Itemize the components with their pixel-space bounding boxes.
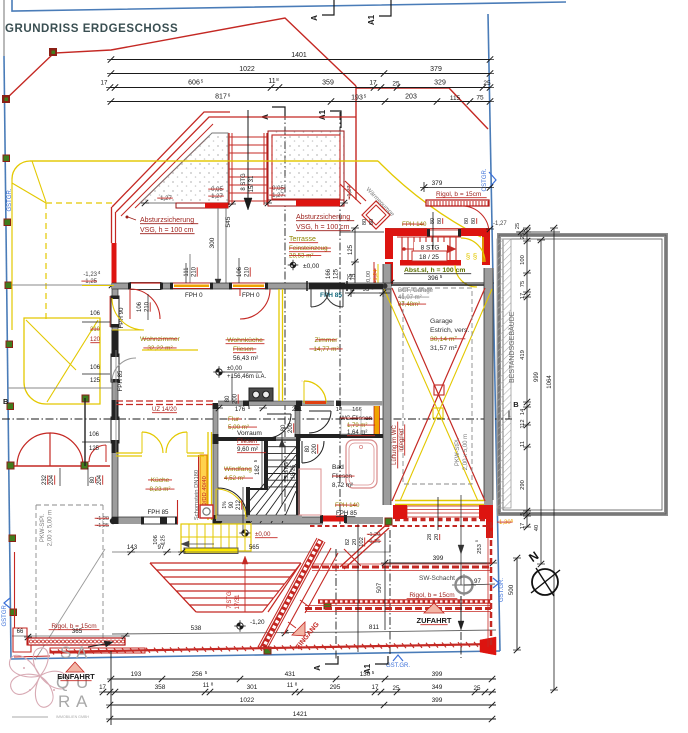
svg-text:204: 204	[97, 474, 103, 485]
svg-text:120: 120	[90, 337, 101, 343]
red east boundary dashes	[490, 522, 493, 647]
svg-text:60: 60	[369, 219, 375, 225]
wall H2 windfang	[216, 437, 276, 441]
interior wall H1 WC part	[338, 401, 383, 406]
terrace east south wall	[268, 200, 344, 206]
svg-text:210: 210	[145, 301, 151, 312]
svg-text:300: 300	[209, 237, 216, 248]
svg-text:IMMOBILIEN GMBH: IMMOBILIEN GMBH	[56, 715, 89, 719]
svg-text:A: A	[76, 643, 88, 662]
dimension line 817 203 115 75	[110, 101, 490, 103]
svg-text:106: 106	[90, 365, 101, 371]
svg-text:20: 20	[434, 534, 440, 540]
svg-text:GRUNDRISS ERDGESCHOSS: GRUNDRISS ERDGESCHOSS	[5, 23, 178, 35]
svg-text:FPH 85: FPH 85	[148, 509, 170, 516]
svg-text:565: 565	[249, 544, 260, 551]
west window FPH90	[111, 296, 119, 327]
garage yellow X marking	[384, 289, 478, 501]
windfang door black swing	[218, 488, 247, 517]
svg-text:1,79 m²: 1,79 m²	[347, 423, 367, 429]
yellow old garage outline	[24, 318, 100, 404]
entry bottom wall	[400, 260, 461, 266]
section line A (dash-dot vertical)	[284, 112, 286, 524]
entry door opening FPH140	[427, 230, 461, 236]
svg-text:VSG, h = 100 cm: VSG, h = 100 cm	[296, 224, 350, 231]
svg-text:28: 28	[427, 534, 433, 540]
svg-text:37,48m²: 37,48m²	[398, 302, 420, 308]
svg-text:-1,20: -1,20	[368, 532, 381, 538]
corner node garage NW	[383, 284, 388, 289]
red band along south boundary	[50, 644, 495, 652]
bottom dim line 3	[110, 704, 496, 706]
svg-text:80: 80	[362, 219, 368, 225]
grey diagonal parking	[35, 549, 105, 660]
svg-text:PKW-StPl.: PKW-StPl.	[455, 438, 461, 467]
svg-text:17/31: 17/31	[235, 594, 241, 610]
svg-text:A: A	[310, 15, 319, 21]
svg-text:210: 210	[90, 327, 101, 333]
svg-text:-1,20: -1,20	[250, 619, 265, 626]
svg-text:Schornstein DN180: Schornstein DN180	[194, 470, 200, 520]
red corner outline southwest	[13, 628, 31, 652]
north door1 red swing	[130, 289, 160, 319]
svg-text:811: 811	[369, 624, 380, 631]
terrace stair flight	[229, 136, 267, 138]
svg-text:Windfang: Windfang	[224, 466, 252, 473]
property boundary south (blue)	[11, 651, 500, 659]
grey line at -123	[12, 284, 112, 286]
svg-text:11: 11	[203, 682, 210, 689]
svg-text:1022: 1022	[239, 66, 255, 73]
svg-text:500: 500	[508, 584, 515, 595]
svg-text:203: 203	[405, 94, 417, 101]
svg-text:111: 111	[184, 267, 190, 277]
svg-text:125: 125	[90, 378, 101, 384]
svg-text:25: 25	[515, 223, 521, 229]
svg-text:±0,00: ±0,00	[303, 263, 320, 270]
dash dot east of schacht	[460, 632, 462, 658]
svg-text:80: 80	[430, 218, 436, 224]
exterior yellow stairs	[181, 524, 251, 551]
north window FPH85 black sill	[309, 283, 345, 290]
yellow demolition line across site	[30, 160, 378, 162]
property boundary north (blue)	[12, 0, 566, 11]
entry stair arrow	[404, 248, 450, 250]
svg-text:Zimmer: Zimmer	[314, 337, 338, 344]
svg-text:75: 75	[520, 281, 526, 287]
eingang triangle	[292, 622, 305, 636]
svg-text:15/ 31: 15/ 31	[249, 175, 255, 192]
stair west wall lower	[246, 487, 250, 523]
red line along west	[13, 99, 15, 628]
svg-text:Wohnzimmer: Wohnzimmer	[140, 336, 181, 343]
yellow double verticals kitchen east	[278, 289, 280, 401]
kitchen yellow wall	[116, 452, 142, 454]
svg-text:1,64 m²: 1,64 m²	[347, 430, 367, 436]
svg-text:Feinsteinzeug: Feinsteinzeug	[289, 245, 328, 252]
boundary marker NW2	[2, 95, 10, 103]
interior wall V1 hall-west	[213, 403, 218, 524]
svg-text:106: 106	[137, 301, 143, 312]
bottom dim line 1	[111, 678, 496, 680]
svg-text:-1,20: -1,20	[96, 516, 109, 522]
grey line annex north	[8, 387, 112, 389]
svg-text:40: 40	[534, 525, 540, 531]
svg-text:399: 399	[432, 697, 443, 704]
north wall east black segment	[345, 284, 383, 289]
stair winder treads	[246, 447, 296, 523]
section line A1 bottom	[389, 530, 391, 655]
small arrow south	[88, 643, 110, 647]
section line B (dash-dot horizontal)	[2, 418, 505, 420]
svg-text:102: 102	[359, 537, 365, 547]
svg-text:EINFAHRT: EINFAHRT	[57, 672, 95, 681]
svg-text:-0,05: -0,05	[209, 187, 223, 193]
svg-text:Fliesen: Fliesen	[237, 438, 258, 445]
dim line 143 97 565	[112, 551, 390, 553]
svg-text:210: 210	[192, 266, 198, 277]
logo flower	[9, 648, 68, 707]
yellow old garage diagonals	[47, 320, 98, 402]
WC fixture	[341, 410, 361, 434]
svg-text:28,53 m²: 28,53 m²	[289, 253, 313, 260]
svg-text:15 STG: 15 STG	[284, 462, 290, 482]
svg-text:399: 399	[433, 555, 444, 562]
wall V2 vorraum-stair	[295, 405, 300, 441]
svg-text:Küche: Küche	[151, 477, 170, 484]
svg-text:Fliesen: Fliesen	[332, 473, 353, 480]
red dashed band upper	[312, 566, 491, 569]
kitchen window yellow sill	[142, 349, 198, 351]
svg-text:-1,25: -1,25	[368, 539, 381, 545]
svg-text:GST.GR.: GST.GR.	[386, 663, 410, 669]
svg-text:80: 80	[471, 218, 477, 224]
red double door west annex	[17, 433, 50, 466]
svg-text:182: 182	[255, 464, 261, 475]
svg-text:Rigol, b = 15cm: Rigol, b = 15cm	[436, 191, 481, 198]
section line A bottom	[335, 549, 337, 661]
svg-text:1401: 1401	[291, 52, 307, 59]
svg-text:232: 232	[42, 474, 48, 485]
annex black post line	[84, 398, 86, 466]
WC east orange shaft	[374, 406, 380, 434]
south window kueche	[142, 517, 177, 524]
svg-text:B: B	[3, 397, 9, 406]
vorraum-stair door arc	[267, 413, 291, 415]
chimney shaft yellow	[200, 455, 207, 505]
svg-text:80: 80	[225, 395, 231, 402]
down arrow below schacht	[460, 596, 462, 625]
svg-text:Abst.sl, h = 100 cm: Abst.sl, h = 100 cm	[404, 267, 465, 274]
dimension 300 vertical	[217, 208, 219, 287]
svg-text:9,60 m²: 9,60 m²	[237, 446, 258, 453]
north door1 yellow swing	[112, 298, 144, 330]
svg-text:399: 399	[432, 671, 443, 678]
svg-text:-1,27: -1,27	[209, 194, 223, 200]
svg-text:PKW-StPl.: PKW-StPl.	[40, 514, 46, 543]
svg-text:-0,05: -0,05	[270, 186, 284, 192]
svg-text:Lüftung im WC: Lüftung im WC	[392, 424, 398, 464]
svg-text:-1,25: -1,25	[83, 279, 97, 285]
svg-text:25: 25	[474, 685, 481, 692]
terrace stair direction arrow	[247, 110, 249, 203]
terrace railing diagonal band	[112, 112, 230, 207]
svg-text:80: 80	[464, 218, 470, 224]
stair east wall	[296, 437, 300, 521]
west window FPH85	[111, 354, 119, 382]
north window FPH0 no2	[231, 283, 266, 289]
north compass	[532, 569, 558, 595]
svg-text:253: 253	[477, 544, 483, 554]
svg-text:BESTANDSGEBÄUDE: BESTANDSGEBÄUDE	[508, 311, 516, 383]
svg-text:11: 11	[268, 78, 275, 85]
svg-text:31,57 m²: 31,57 m²	[430, 345, 458, 352]
svg-text:20: 20	[352, 539, 358, 545]
svg-text:97: 97	[474, 578, 481, 585]
svg-text:256: 256	[192, 671, 203, 678]
svg-text:18/25: 18/25	[291, 465, 297, 480]
interior wall H1 kitchen-hall	[218, 401, 334, 406]
svg-text:17: 17	[372, 684, 379, 691]
north window FPH0 no1	[172, 283, 211, 289]
svg-text:301: 301	[247, 684, 258, 691]
svg-text:817: 817	[215, 94, 227, 101]
property boundary east (blue)	[488, 14, 500, 651]
dim 66 365	[12, 635, 130, 637]
amphitheatre steps 7stg	[150, 562, 301, 564]
svg-text:FPH 85: FPH 85	[320, 292, 342, 299]
ramp arrows	[288, 600, 308, 628]
bestand west hatched wall	[497, 239, 511, 508]
svg-text:115: 115	[450, 95, 461, 102]
einfahrt triangle	[66, 662, 84, 672]
entry stair enclosure red walls	[385, 228, 393, 259]
svg-text:Wohnküche: Wohnküche	[227, 337, 263, 344]
svg-text:Estrich, vers.: Estrich, vers.	[430, 327, 469, 334]
exterior stairs arrow	[184, 543, 214, 545]
svg-text:75: 75	[476, 95, 484, 102]
garage east wall grey	[484, 268, 493, 505]
svg-text:Rigol, b = 15cm: Rigol, b = 15cm	[409, 592, 454, 599]
dimension line 1401	[111, 59, 490, 61]
svg-text:Terrasse: Terrasse	[289, 236, 316, 243]
yellow old wall kueche-windfang	[207, 432, 209, 520]
garage west wall grey	[383, 264, 391, 505]
svg-text:WC Fliesen: WC Fliesen	[340, 415, 373, 422]
yellow dashed outline old annex	[45, 203, 47, 320]
svg-text:Fliesen: Fliesen	[233, 346, 254, 353]
west FPH85 grey door arc	[112, 358, 136, 382]
svg-text:507: 507	[376, 582, 383, 593]
entry ramp striped band	[262, 540, 321, 649]
svg-text:2,00 x 5,00 m: 2,00 x 5,00 m	[48, 510, 54, 546]
svg-text:-1,24: -1,24	[373, 269, 379, 283]
bottom dim line 2	[103, 691, 496, 693]
svg-text:FPH 85: FPH 85	[117, 370, 124, 392]
svg-text:431: 431	[285, 671, 296, 678]
garage door	[395, 500, 484, 502]
svg-text:359: 359	[322, 80, 334, 87]
property boundary west (blue)	[4, 56, 11, 659]
svg-text:212: 212	[236, 499, 242, 510]
svg-text:396: 396	[428, 275, 439, 282]
svg-text:8 STG: 8 STG	[421, 245, 440, 252]
garage door corner red east	[479, 505, 493, 519]
vertical line garage door dim	[437, 497, 439, 530]
svg-text:25: 25	[393, 685, 400, 692]
svg-text:75: 75	[351, 273, 357, 280]
svg-text:379: 379	[430, 66, 442, 73]
red railing northeast diagonal	[340, 181, 366, 204]
svg-text:8,23 m²: 8,23 m²	[150, 486, 171, 493]
svg-text:FPH 85: FPH 85	[336, 510, 358, 517]
small red door arc west wall	[89, 445, 106, 462]
dimension line 606 359 329	[110, 87, 490, 89]
svg-text:999: 999	[534, 371, 540, 382]
house north wall	[112, 283, 391, 289]
svg-text:R: R	[58, 692, 70, 711]
svg-text:90: 90	[229, 501, 235, 508]
svg-text:17: 17	[99, 684, 106, 691]
garage north wall line	[391, 284, 484, 286]
svg-text:25: 25	[392, 81, 400, 88]
svg-text:329: 329	[434, 80, 446, 87]
yellow corner arc northwest	[12, 161, 30, 179]
svg-text:7 STG: 7 STG	[227, 591, 233, 609]
svg-text:FPH 0: FPH 0	[242, 292, 260, 299]
svg-text:1421: 1421	[293, 711, 308, 718]
svg-text:56,43 m²: 56,43 m²	[233, 355, 258, 362]
dim 811 line	[358, 630, 496, 632]
svg-text:ZUFAHRT: ZUFAHRT	[417, 616, 452, 625]
dim 93-5 east	[350, 289, 352, 297]
svg-text:integriert: integriert	[399, 428, 405, 452]
stair walking line	[281, 433, 283, 505]
svg-text:1%: 1%	[222, 501, 228, 509]
garage door corner red west	[393, 505, 407, 519]
svg-text:17: 17	[520, 293, 526, 299]
svg-text:17: 17	[369, 80, 377, 87]
red dotted rigol band	[318, 599, 491, 604]
kitchen stove	[249, 388, 273, 401]
svg-text:358: 358	[155, 684, 166, 691]
svg-text:18 / 25: 18 / 25	[419, 254, 439, 261]
flur yellow door swing	[304, 381, 326, 403]
svg-text:GST.GR.: GST.GR.	[499, 578, 505, 602]
big yellow door arc terrace east	[378, 161, 481, 237]
svg-text:11: 11	[287, 682, 294, 689]
chimney box	[200, 505, 213, 518]
house west wall	[112, 283, 118, 524]
red band south corner blob	[480, 637, 496, 655]
svg-text:32,22 m²: 32,22 m²	[147, 345, 172, 352]
stair treads straight flight	[268, 439, 296, 441]
svg-text:UZ 14/20: UZ 14/20	[152, 407, 177, 413]
svg-text:§: §	[473, 252, 477, 261]
svg-text:VSG, h = 100 cm: VSG, h = 100 cm	[140, 227, 194, 234]
svg-text:176: 176	[235, 406, 246, 413]
svg-text:BGF, Garage: BGF, Garage	[398, 288, 434, 294]
north FPH85 double swing	[311, 289, 329, 307]
svg-text:125: 125	[89, 446, 100, 452]
windfang door yellow swings	[216, 489, 246, 519]
shower bad	[299, 469, 321, 515]
svg-text:17: 17	[520, 523, 526, 529]
dim 399 upper	[385, 562, 493, 564]
svg-text:349: 349	[432, 684, 443, 691]
svg-text:A1: A1	[318, 109, 327, 120]
svg-text:±0,00: ±0,00	[255, 531, 271, 538]
south wall black corners	[112, 517, 119, 524]
annex door markers	[7, 462, 14, 469]
ramp from garage door corner	[340, 525, 386, 567]
svg-text:30,14 m²: 30,14 m²	[430, 336, 458, 343]
entry west dim line 125 75	[354, 228, 356, 289]
rigol infiltration strip top	[426, 200, 489, 206]
svg-text:-1,25: -1,25	[96, 523, 109, 529]
terrace west south wall	[176, 203, 228, 208]
svg-text:66: 66	[17, 629, 24, 635]
svg-text:14,77 m²: 14,77 m²	[313, 346, 338, 353]
rigol strip southwest	[28, 638, 125, 645]
terrace west hatched area	[140, 133, 228, 203]
svg-text:5: 5	[520, 512, 526, 515]
bathtub	[346, 440, 377, 488]
svg-text:1064: 1064	[547, 375, 553, 389]
bestand outer frame	[499, 235, 666, 514]
svg-text:11: 11	[520, 441, 526, 447]
dim 507 vertical	[384, 533, 386, 630]
B section bracket east	[505, 418, 512, 420]
vorraum-WC door black swing	[309, 410, 331, 412]
svg-text:4,52 m²: 4,52 m²	[224, 475, 245, 482]
green markers ramp	[324, 602, 331, 609]
svg-text:B: B	[513, 400, 519, 409]
yellow step bar	[184, 548, 238, 554]
zufahrt triangle	[424, 603, 444, 613]
svg-text:Flur: Flur	[228, 416, 240, 423]
svg-text:S: S	[60, 643, 71, 662]
svg-text:41,07 m²: 41,07 m²	[398, 295, 422, 301]
bestand dim 1064	[553, 228, 555, 690]
red dashed footing line south	[310, 525, 493, 527]
west wall black segments	[112, 330, 119, 354]
garage red X marking	[392, 288, 485, 501]
svg-text:106: 106	[237, 266, 243, 277]
svg-text:143: 143	[127, 544, 138, 551]
level mark kitchen	[216, 369, 222, 375]
red survey line northwest	[6, 18, 356, 99]
svg-text:Bad: Bad	[332, 464, 344, 471]
svg-text:365: 365	[72, 628, 83, 635]
svg-text:379: 379	[432, 180, 443, 187]
dim 538 line	[112, 632, 358, 634]
stair enclosure west wall upper	[264, 437, 268, 490]
svg-text:14: 14	[520, 408, 526, 415]
svg-text:FPH 140: FPH 140	[335, 502, 360, 509]
svg-text:-1,27: -1,27	[270, 193, 284, 199]
svg-text:97: 97	[158, 544, 165, 551]
black vertical 538-811 divider	[357, 524, 359, 652]
kitchen yellow double door	[142, 432, 163, 453]
svg-text:8 STG: 8 STG	[241, 173, 247, 191]
svg-text:25: 25	[483, 80, 491, 87]
svg-text:545: 545	[225, 216, 232, 227]
level 0 at windfang	[242, 530, 248, 536]
svg-text:17: 17	[101, 80, 108, 87]
svg-text:100: 100	[520, 255, 526, 265]
svg-text:+156,46m ü.A.: +156,46m ü.A.	[227, 374, 267, 380]
